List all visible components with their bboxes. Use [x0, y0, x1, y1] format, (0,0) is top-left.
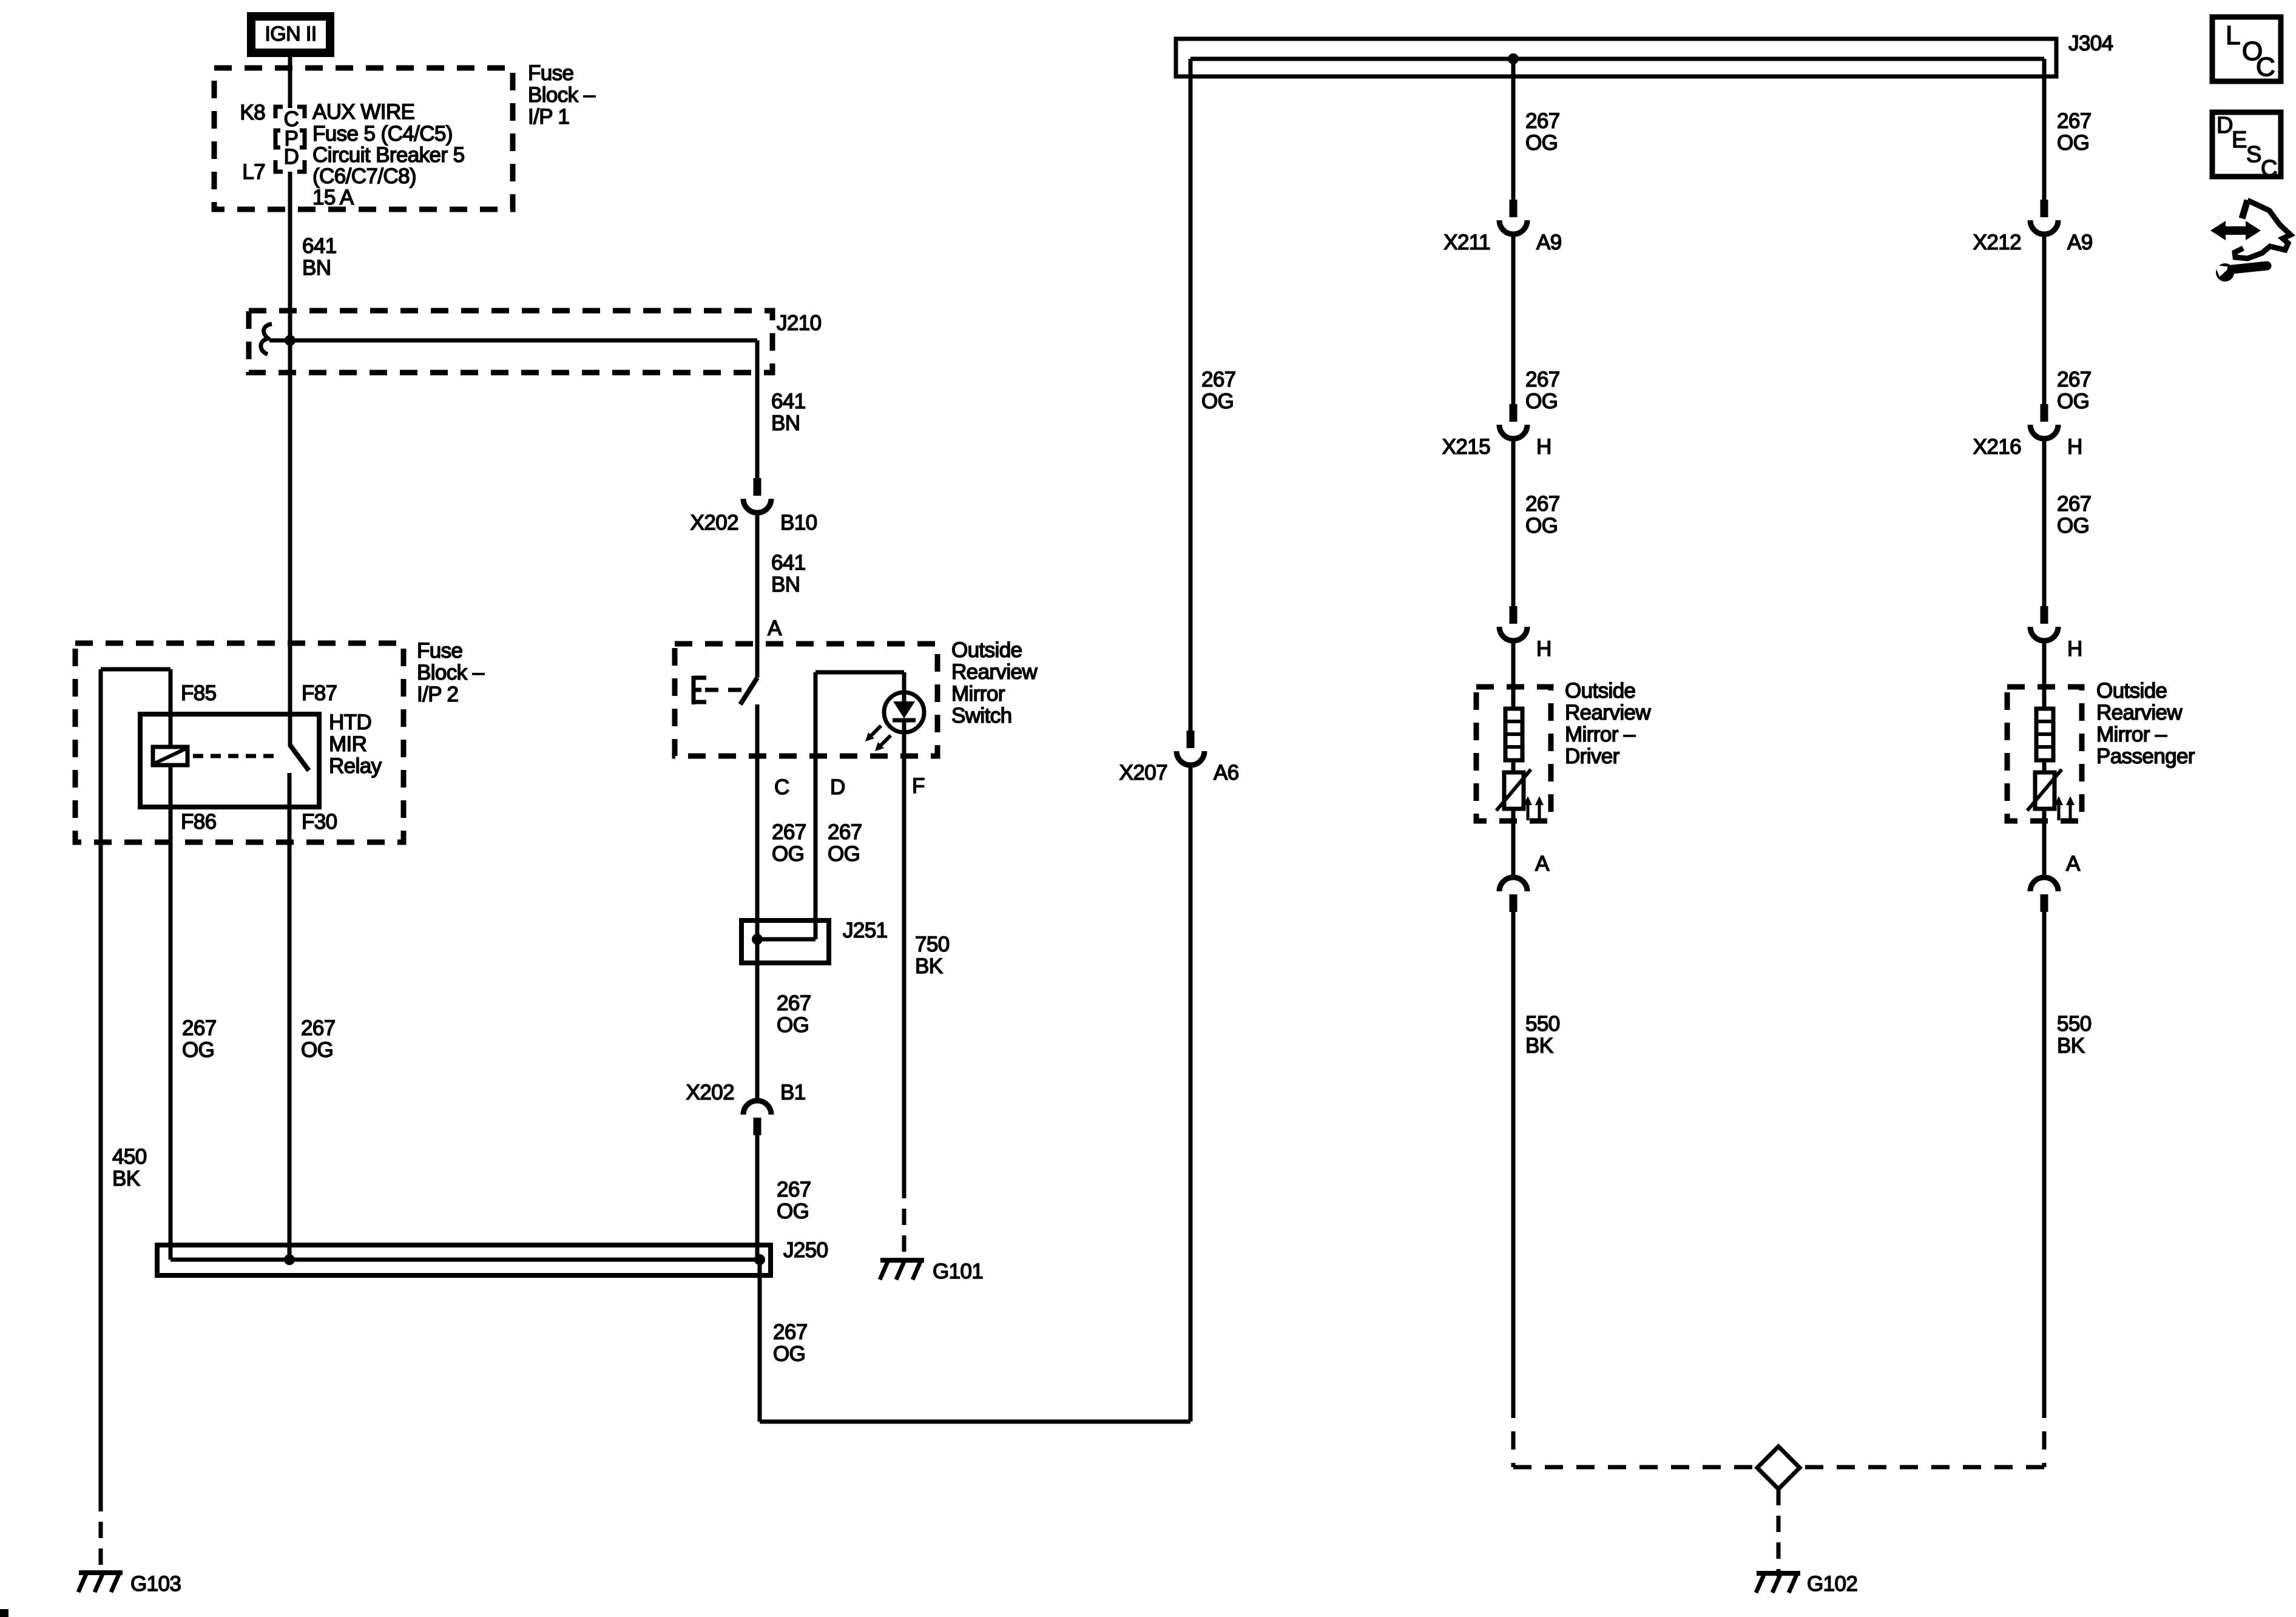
wire label 267 OG above X212 — [2057, 109, 2092, 155]
svg-text:F: F — [912, 774, 925, 798]
connector X202 B10 — [743, 478, 771, 513]
svg-text:OG: OG — [1201, 390, 1234, 413]
svg-text:IGN II: IGN II — [265, 22, 316, 46]
relay label — [329, 711, 382, 778]
wire label 641 BN upper — [302, 234, 337, 280]
svg-text:X215: X215 — [1442, 435, 1490, 459]
pin L7 label — [242, 160, 265, 184]
svg-text:OG: OG — [1525, 131, 1558, 155]
ground G101 label — [933, 1260, 983, 1283]
junction dot J304 — [1508, 53, 1519, 64]
svg-text:OG: OG — [828, 842, 860, 866]
switch actuation dashed link — [705, 688, 748, 692]
fuse block I/P 1 label — [528, 61, 596, 129]
wire 641 BN down right branch — [755, 340, 760, 478]
junction dot at J251 — [752, 934, 763, 945]
svg-text:267: 267 — [1525, 368, 1560, 391]
svg-text:G102: G102 — [1807, 1572, 1857, 1596]
wire label 267 OG pin D — [828, 820, 862, 866]
wire label 267 OG X211-X215 — [1525, 368, 1560, 413]
splice bus J250 box — [157, 1245, 771, 1275]
svg-text:A: A — [768, 616, 782, 640]
junction dot J250 right — [754, 1254, 765, 1265]
svg-text:267: 267 — [301, 1016, 336, 1040]
fuse block I/P 1 dashed box — [214, 68, 513, 209]
svg-text:BK: BK — [915, 954, 943, 978]
svg-text:F30: F30 — [302, 810, 337, 834]
connector A passenger — [2030, 877, 2058, 912]
driver mirror heater element — [1505, 709, 1522, 760]
diagnostic icon wrench — [2215, 263, 2267, 282]
connector H driver — [1499, 606, 1527, 641]
fuse block I/P 2 label — [417, 639, 485, 706]
svg-text:H: H — [2067, 637, 2082, 661]
fuse/circuit breaker symbol C P D — [275, 107, 305, 172]
svg-text:OG: OG — [1525, 514, 1558, 538]
connector A driver — [1499, 877, 1527, 912]
LED triangle and bar — [893, 692, 916, 732]
connector X207 A6 labels — [1119, 761, 1239, 785]
svg-text:267: 267 — [182, 1016, 217, 1040]
passenger mirror thermistor — [2027, 769, 2062, 811]
svg-text:A9: A9 — [2067, 231, 2093, 254]
svg-text:267: 267 — [777, 991, 811, 1015]
wire label 267 OG X212-X216 — [2057, 368, 2092, 413]
svg-text:641: 641 — [771, 551, 806, 575]
svg-text:D: D — [284, 145, 299, 169]
ground G102 label — [1807, 1572, 1857, 1596]
splice bus J304 box — [1176, 39, 2056, 76]
svg-text:L7: L7 — [242, 160, 265, 184]
connector X212 A9 labels — [1973, 231, 2093, 254]
DESC legend box — [2212, 112, 2281, 181]
svg-text:OG: OG — [1525, 390, 1558, 413]
mirror switch label — [951, 638, 1038, 727]
wire 550 BK driver — [1511, 912, 1516, 1400]
wire label 550 BK passenger — [2057, 1012, 2092, 1058]
svg-text:Outside: Outside — [951, 638, 1022, 662]
wire F86 to J250 — [169, 765, 173, 1260]
svg-text:267: 267 — [2057, 492, 2092, 516]
wire label 267 OG F30 — [301, 1016, 336, 1062]
svg-text:267: 267 — [1525, 492, 1560, 516]
wire 641 BN fuse to J210 junction and relay F87 switch arm pivot — [288, 172, 292, 746]
svg-text:641: 641 — [771, 390, 806, 413]
svg-text:Fuse: Fuse — [528, 61, 573, 85]
svg-text:BN: BN — [771, 411, 800, 435]
wire inside J250 — [171, 1258, 760, 1262]
wire 450 BK down left — [99, 669, 103, 1495]
wire label 267 OG below J251 — [777, 991, 811, 1037]
driver mirror arrows — [1524, 796, 1544, 820]
svg-text:Passenger: Passenger — [2096, 744, 2195, 768]
svg-text:267: 267 — [777, 1178, 811, 1201]
switch coil-side bracket E — [694, 676, 706, 704]
svg-text:550: 550 — [2057, 1012, 2092, 1036]
wire driver mirror to A — [1511, 809, 1516, 877]
svg-text:267: 267 — [2057, 368, 2092, 391]
connector X212 A9 — [2030, 200, 2058, 234]
connector X202 B10 labels — [690, 511, 817, 535]
passenger pin A label — [2066, 852, 2081, 876]
wire label 267 OG below B1 — [777, 1178, 811, 1223]
splice bus J304 label — [2068, 32, 2113, 55]
dashed lead to G101 — [902, 1182, 907, 1257]
svg-text:X202: X202 — [690, 511, 738, 535]
svg-text:750: 750 — [915, 933, 950, 956]
svg-text:OG: OG — [2057, 514, 2089, 538]
svg-text:Fuse: Fuse — [417, 639, 462, 663]
wire F85 up and over — [101, 669, 171, 747]
wire J304 to X211 — [1511, 59, 1516, 200]
LED indicator circle — [884, 692, 924, 732]
svg-text:D: D — [830, 775, 845, 799]
outside rearview mirror switch dashed box — [675, 644, 937, 756]
svg-text:Outside: Outside — [1565, 679, 1635, 703]
svg-text:C: C — [2256, 52, 2275, 82]
svg-text:OG: OG — [772, 842, 804, 866]
svg-text:OG: OG — [301, 1038, 333, 1062]
svg-text:(C6/C7/C8): (C6/C7/C8) — [312, 164, 416, 188]
svg-text:450: 450 — [112, 1145, 147, 1169]
wire label 641 BN below B10 — [771, 551, 806, 596]
dashed lead diamond to G102 — [1777, 1489, 1781, 1576]
svg-text:G101: G101 — [933, 1260, 983, 1283]
svg-text:Circuit Breaker 5: Circuit Breaker 5 — [312, 143, 464, 167]
wire X216 to H — [2042, 439, 2047, 606]
svg-text:X216: X216 — [1973, 435, 2021, 459]
connector X211 A9 labels — [1443, 231, 1561, 254]
connector H passenger label — [2067, 637, 2082, 661]
svg-text:F86: F86 — [181, 810, 217, 834]
svg-text:267: 267 — [828, 820, 862, 844]
passenger mirror label — [2096, 679, 2195, 768]
svg-text:G103: G103 — [130, 1572, 181, 1596]
connector X207 A6 — [1177, 731, 1204, 765]
wire inside J210 to right branch — [269, 339, 757, 343]
passenger mirror arrows — [2055, 796, 2075, 820]
svg-text:AUX WIRE: AUX WIRE — [312, 100, 414, 124]
svg-text:H: H — [1536, 435, 1551, 459]
wire label 267 OG long line — [1201, 368, 1236, 413]
svg-text:Relay: Relay — [329, 754, 382, 778]
svg-text:OG: OG — [2057, 390, 2089, 413]
splice J251 label — [843, 919, 888, 942]
svg-text:Mirror –: Mirror – — [2096, 723, 2167, 746]
svg-text:OG: OG — [773, 1342, 805, 1366]
svg-text:X212: X212 — [1973, 231, 2021, 254]
HTD MIR relay box — [140, 714, 319, 807]
svg-text:X202: X202 — [686, 1081, 734, 1104]
junction dot at J210 — [285, 335, 295, 346]
svg-text:267: 267 — [1525, 109, 1560, 133]
splice clip symbol in J210 — [261, 324, 272, 354]
svg-text:15 A: 15 A — [312, 186, 354, 209]
switch pin F label — [912, 774, 925, 798]
switch pin A label — [768, 616, 782, 640]
svg-text:K8: K8 — [240, 101, 265, 124]
wire label 641 BN right branch — [771, 390, 806, 435]
diagnostic icon outline — [2235, 200, 2291, 258]
LED light arrows — [865, 726, 891, 751]
outside rearview mirror driver dashed box — [1476, 687, 1551, 821]
fuse description — [312, 100, 464, 209]
svg-text:HTD: HTD — [329, 711, 371, 734]
splice J251 internal link — [757, 937, 815, 942]
svg-text:Fuse 5 (C4/C5): Fuse 5 (C4/C5) — [312, 122, 453, 146]
svg-text:BK: BK — [112, 1167, 140, 1190]
splice diamond — [1757, 1447, 1800, 1489]
splice J251 box — [741, 920, 829, 963]
relay pin F87 label — [302, 681, 337, 705]
connector X216 H labels — [1973, 435, 2082, 459]
wire X212 to X216 — [2042, 235, 2047, 404]
ground G103 label — [130, 1572, 181, 1596]
wire X215 to H — [1511, 439, 1516, 606]
svg-text:A: A — [1535, 852, 1550, 876]
relay pin F85 label — [181, 681, 217, 705]
svg-text:B10: B10 — [780, 511, 817, 535]
dashed lead passenger to splice — [1800, 1400, 2044, 1467]
wire label 267 OG X216-H — [2057, 492, 2092, 538]
svg-text:X207: X207 — [1119, 761, 1167, 785]
wire X211 to X215 — [1511, 235, 1516, 404]
svg-text:A9: A9 — [1536, 231, 1562, 254]
splice J210 dashed box — [249, 311, 772, 373]
svg-text:J210: J210 — [777, 311, 822, 335]
wire label 550 BK driver — [1525, 1012, 1560, 1058]
connector H driver label — [1536, 637, 1551, 661]
svg-text:C: C — [774, 775, 789, 799]
svg-text:Block –: Block – — [528, 83, 596, 107]
svg-text:550: 550 — [1525, 1012, 1560, 1036]
LED wire top link — [815, 672, 904, 939]
outside rearview mirror passenger dashed box — [2007, 687, 2082, 821]
wire H into driver mirror — [1511, 641, 1516, 709]
wire label 267 OG below J250 — [773, 1320, 808, 1366]
splice J210 label — [777, 311, 822, 335]
svg-text:I/P 2: I/P 2 — [417, 683, 458, 706]
wire J250 down and right to X207 line — [760, 1260, 1190, 1422]
svg-text:F87: F87 — [302, 681, 337, 705]
wire label 267 OG above X211 — [1525, 109, 1560, 155]
svg-text:A6: A6 — [1214, 761, 1239, 785]
wire 641 BN from IGN II to fuse — [288, 56, 292, 108]
pin K8 label — [240, 101, 265, 124]
svg-text:BK: BK — [2057, 1034, 2085, 1058]
relay coil — [153, 747, 187, 765]
svg-text:B1: B1 — [780, 1081, 806, 1104]
svg-text:Block –: Block – — [417, 661, 485, 684]
svg-text:BN: BN — [771, 573, 800, 596]
switch arm — [740, 678, 757, 704]
wire inside J304 — [1190, 57, 2044, 61]
svg-text:OG: OG — [182, 1038, 214, 1062]
connector X215 H — [1499, 404, 1527, 439]
wire 550 BK passenger — [2042, 912, 2047, 1400]
wire switch to pin C — [755, 704, 760, 1100]
svg-text:E: E — [2232, 127, 2247, 153]
svg-text:Mirror: Mirror — [951, 682, 1005, 706]
svg-text:Rearview: Rearview — [2096, 701, 2183, 724]
wire B1 to J250 — [755, 1135, 760, 1260]
driver pin A label — [1535, 852, 1550, 876]
wire label 267 OG F86 — [182, 1016, 217, 1062]
wire label 450 BK — [112, 1145, 147, 1190]
svg-text:MIR: MIR — [329, 732, 366, 756]
svg-text:Outside: Outside — [2096, 679, 2167, 703]
wire J304 to X212 — [2042, 59, 2047, 200]
svg-text:H: H — [2067, 435, 2082, 459]
wire 750 BK from pin F — [902, 732, 907, 1182]
svg-text:OG: OG — [2057, 131, 2089, 155]
svg-text:OG: OG — [777, 1013, 809, 1037]
LOC legend box — [2212, 17, 2281, 82]
wire H into passenger mirror — [2042, 641, 2047, 709]
wire 267 OG long vertical — [1189, 59, 1193, 1422]
relay coil-switch dashed link — [193, 754, 274, 758]
driver mirror label — [1565, 679, 1651, 768]
svg-text:J304: J304 — [2068, 32, 2113, 55]
svg-text:BK: BK — [1525, 1034, 1553, 1058]
dashed lead driver to splice — [1513, 1400, 1757, 1467]
connector H passenger — [2030, 606, 2058, 641]
passenger mirror heater element — [2036, 709, 2053, 760]
svg-text:J251: J251 — [843, 919, 888, 942]
connector X202 B1 — [743, 1101, 771, 1135]
splice bus J250 label — [783, 1238, 828, 1262]
svg-text:641: 641 — [302, 234, 337, 258]
wire label 750 BK — [915, 933, 950, 978]
svg-text:Rearview: Rearview — [951, 660, 1038, 684]
svg-text:X211: X211 — [1443, 231, 1490, 254]
connector X211 A9 — [1499, 200, 1527, 234]
svg-text:L: L — [2226, 21, 2240, 50]
svg-text:Mirror –: Mirror – — [1565, 723, 1636, 746]
svg-text:F85: F85 — [181, 681, 217, 705]
power feed tag IGN II — [251, 16, 330, 53]
svg-text:267: 267 — [1201, 368, 1236, 391]
dashed lead to G103 — [99, 1495, 103, 1569]
connector X215 H labels — [1442, 435, 1551, 459]
ground G102 — [1756, 1573, 1800, 1593]
relay switch arm — [290, 745, 309, 771]
svg-text:267: 267 — [2057, 109, 2092, 133]
wire label 267 OG X215-H — [1525, 492, 1560, 538]
svg-text:A: A — [2066, 852, 2081, 876]
wire 641 BN B10 to switch — [755, 513, 760, 678]
connector X202 B1 labels — [686, 1081, 806, 1104]
switch pin C label — [774, 775, 789, 799]
wire F30 to J250 — [288, 809, 292, 1260]
svg-text:J250: J250 — [783, 1238, 828, 1262]
relay pin F30 label — [302, 810, 337, 834]
svg-text:S: S — [2246, 142, 2261, 167]
diagnostic icon double arrow — [2210, 221, 2261, 240]
wire passenger mirror to A — [2042, 809, 2047, 877]
svg-text:H: H — [1536, 637, 1551, 661]
svg-text:267: 267 — [772, 820, 806, 844]
ground G103 — [78, 1573, 123, 1592]
svg-text:D: D — [2217, 113, 2233, 138]
svg-text:267: 267 — [773, 1320, 808, 1344]
connector X216 H — [2030, 404, 2058, 439]
relay switch lower contact — [288, 773, 292, 809]
passenger mirror heater-thermistor link — [2042, 760, 2047, 772]
page corner mark — [0, 1609, 8, 1617]
svg-text:C: C — [2261, 156, 2277, 181]
wire label 267 OG pin C — [772, 820, 806, 866]
driver mirror thermistor — [1496, 769, 1531, 811]
svg-text:I/P 1: I/P 1 — [528, 105, 569, 129]
svg-text:BN: BN — [302, 256, 331, 280]
ground G101 — [880, 1260, 924, 1280]
switch pin D label — [830, 775, 845, 799]
svg-text:Switch: Switch — [951, 704, 1012, 727]
svg-text:OG: OG — [777, 1200, 809, 1223]
relay pin F86 label — [181, 810, 217, 834]
svg-text:Driver: Driver — [1565, 744, 1620, 768]
svg-text:Rearview: Rearview — [1565, 701, 1651, 724]
driver mirror heater-thermistor link — [1511, 760, 1516, 772]
junction dot J250 F30 — [284, 1254, 295, 1265]
fuse block I/P 2 dashed box — [75, 643, 403, 842]
